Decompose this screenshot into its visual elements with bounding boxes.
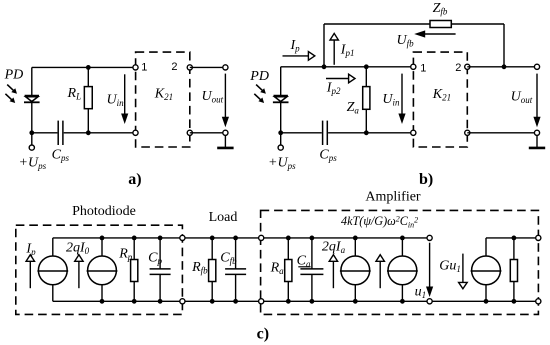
svg-text:2: 2	[171, 61, 177, 73]
svg-text:2: 2	[455, 62, 461, 74]
svg-text:PD: PD	[249, 69, 269, 84]
svg-text:Photodiode: Photodiode	[72, 204, 136, 219]
svg-text:1: 1	[141, 62, 147, 74]
svg-text:Amplifier: Amplifier	[365, 190, 421, 205]
svg-text:b): b)	[419, 171, 433, 188]
svg-text:4kT(ψ/G)ω2Cin2: 4kT(ψ/G)ω2Cin2	[341, 214, 418, 230]
svg-text:1: 1	[420, 62, 426, 74]
svg-text:c): c)	[257, 326, 269, 343]
svg-text:a): a)	[128, 171, 141, 188]
svg-text:PD: PD	[4, 67, 24, 82]
svg-text:Load: Load	[209, 210, 238, 225]
